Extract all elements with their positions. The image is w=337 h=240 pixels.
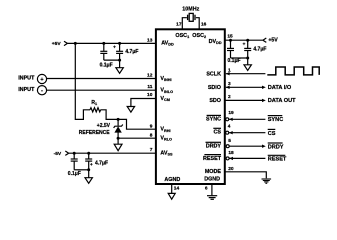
junction dot cap C3 (73, 152, 76, 155)
junction dot at reference tap (74, 42, 77, 45)
ground (VCM, open triangle) (127, 107, 134, 113)
svg-text:+5V: +5V (268, 38, 278, 44)
svg-text:INPUT: INPUT (18, 75, 35, 81)
wire pin 15 DVDD to +5V (225, 39, 263, 41)
svg-text:R1: R1 (91, 100, 97, 106)
junction dot zener top (117, 118, 120, 121)
junction dot zener bottom (117, 137, 120, 140)
ground (AGND, open triangle) (168, 193, 175, 199)
svg-text:SYNC: SYNC (268, 117, 284, 123)
svg-text:AGND: AGND (164, 177, 180, 183)
wire INPUT- to pin 11 (47, 89, 156, 91)
arrowhead out DRDY (262, 145, 266, 148)
wire pin 3 SDIO (226, 86, 263, 88)
svg-text:10: 10 (147, 92, 153, 98)
svg-text:7: 7 (150, 147, 153, 153)
capacitor C1 0.1uF (100, 43, 107, 60)
junction dot cap C5 (229, 39, 232, 42)
svg-text:+5V: +5V (52, 41, 62, 47)
svg-text:4: 4 (228, 124, 231, 130)
wire zener top lead (117, 119, 119, 125)
svg-text:4.7μF: 4.7μF (125, 49, 138, 55)
svg-text:CS: CS (268, 131, 276, 137)
wire R1 to pin 9 VRHI (101, 110, 156, 129)
svg-text:19: 19 (228, 110, 234, 116)
svg-text:13: 13 (147, 38, 153, 44)
svg-text:8: 8 (150, 133, 153, 139)
svg-text:0.1μF: 0.1μF (68, 171, 81, 177)
ground (MODE, earth bars) (262, 179, 272, 183)
svg-text:DRDY: DRDY (206, 144, 222, 150)
wire pin 10 VCM to ground (131, 99, 156, 107)
arrowhead out to DATA I/O (262, 86, 266, 89)
svg-text:+: + (113, 45, 116, 50)
arrowhead out to DATA OUT (262, 99, 266, 102)
svg-text:10MHz: 10MHz (182, 7, 199, 13)
svg-text:+: + (40, 77, 43, 83)
svg-text:0.1μF: 0.1μF (100, 62, 113, 68)
wire zener node to pin 8 VRLO (118, 137, 156, 139)
crystal Y1 wire right leg (196, 18, 199, 30)
svg-text:4.7μF: 4.7μF (95, 161, 108, 167)
capacitor C3 0.1uF (71, 153, 78, 170)
wire AGND pin 14 stub (171, 184, 173, 193)
svg-text:9: 9 (150, 123, 153, 129)
arrowhead into pin 3 (226, 86, 230, 89)
junction dot cap C4 (87, 152, 90, 155)
svg-text:CS: CS (214, 130, 222, 136)
svg-text:DRDY: DRDY (268, 144, 284, 150)
ground (negative supply, open triangle) (85, 178, 92, 184)
svg-text:0.1μF: 0.1μF (228, 58, 241, 64)
arrowhead into pin 18 (229, 157, 233, 160)
wire -5V rail to pin 7 AVSS (69, 152, 156, 154)
junction dot cap C2 (118, 42, 121, 45)
svg-text:INPUT: INPUT (18, 87, 35, 93)
svg-text:SDIO: SDIO (208, 85, 221, 91)
wire pin 20 MODE to ground (225, 172, 266, 179)
wire to ground (119, 60, 121, 67)
svg-text:5: 5 (228, 138, 231, 144)
ground (reference, open triangle) (114, 144, 122, 151)
arrowhead into pin 19 (229, 118, 233, 121)
svg-text:+: + (243, 41, 246, 46)
svg-text:17: 17 (176, 22, 182, 28)
svg-text:14: 14 (174, 186, 180, 192)
ground (DGND, earth bars) (207, 196, 217, 200)
capacitor C4 4.7uF (85, 153, 92, 170)
bubble pin 5 (226, 145, 229, 148)
crystal Y1 (188, 13, 195, 21)
wire cap bottoms (74, 169, 89, 171)
wire to ground (88, 170, 90, 178)
ground (analog, open triangle) (116, 68, 123, 74)
wire pin 19 SYNC (229, 118, 266, 120)
wire pin 4 CS (229, 132, 266, 134)
wire cap bottoms (104, 59, 120, 61)
svg-text:SDO: SDO (209, 98, 221, 104)
svg-text:+2.5V: +2.5V (97, 123, 111, 129)
svg-text:16: 16 (201, 22, 207, 28)
bubble pin 18 (226, 157, 229, 160)
svg-text:2: 2 (228, 94, 231, 100)
svg-text:3: 3 (228, 81, 231, 87)
arrowhead into pin 4 (229, 131, 233, 134)
ground (digital supply, open triangle) (244, 65, 251, 71)
wire DGND pin 6 stub (211, 184, 213, 195)
svg-text:DATA OUT: DATA OUT (268, 98, 296, 104)
svg-text:18: 18 (228, 150, 234, 156)
wire pin 1 SCLK (226, 73, 266, 75)
node +5V (digital supply terminal) (263, 38, 266, 42)
svg-text:6: 6 (205, 185, 208, 191)
svg-text:12: 12 (147, 72, 153, 78)
wire INPUT+ to pin 12 (47, 78, 156, 80)
crystal Y1 wire left leg (182, 18, 187, 30)
svg-text:RESET: RESET (203, 156, 222, 162)
wire +5V rail to pin 13 (67, 42, 155, 44)
bubble pin 4 (226, 131, 229, 134)
wire to ground (247, 58, 249, 65)
svg-text:DGND: DGND (204, 177, 220, 183)
wire zener to ground (117, 138, 119, 144)
svg-text:+: + (90, 162, 93, 167)
capacitor C2 4.7uF (116, 43, 123, 60)
zener diode D1 +2.5V reference (114, 125, 123, 139)
junction dot cap ground (246, 57, 249, 60)
svg-text:15: 15 (227, 33, 233, 39)
arrowhead into pin 1 (226, 72, 230, 75)
wire pin 2 SDO (225, 99, 263, 101)
op-amp U1 (ADC IC body) (156, 29, 225, 184)
svg-text:RESET: RESET (268, 157, 287, 163)
svg-text:11: 11 (147, 84, 152, 90)
capacitor C5 0.1uF (227, 40, 234, 58)
junction dot cap C6 (246, 39, 249, 42)
capacitor C6 4.7uF (244, 40, 251, 58)
junction dot cap ground (118, 59, 121, 62)
svg-text:-5V: -5V (54, 151, 62, 157)
wire pin 18 RESET (229, 157, 265, 159)
svg-text:20: 20 (228, 166, 234, 172)
svg-text:4.7μF: 4.7μF (253, 47, 266, 53)
svg-text:SYNC: SYNC (206, 117, 221, 123)
junction dot cap C1 (102, 42, 105, 45)
svg-text:REFERENCE: REFERENCE (79, 130, 111, 136)
wire pin 5 DRDY (229, 145, 262, 147)
svg-text:DATA I/O: DATA I/O (268, 85, 292, 91)
svg-text:MODE: MODE (205, 169, 222, 175)
svg-text:1: 1 (228, 67, 231, 73)
junction dot cap ground (87, 168, 90, 171)
clock waveform symbol (267, 67, 319, 75)
svg-text:SCLK: SCLK (206, 71, 221, 77)
wire +5V drop to reference (75, 43, 90, 119)
wire cap bottoms (231, 57, 248, 59)
bubble pin 19 (226, 118, 229, 121)
resistor R1 (90, 108, 101, 112)
svg-text:-: - (41, 88, 43, 94)
